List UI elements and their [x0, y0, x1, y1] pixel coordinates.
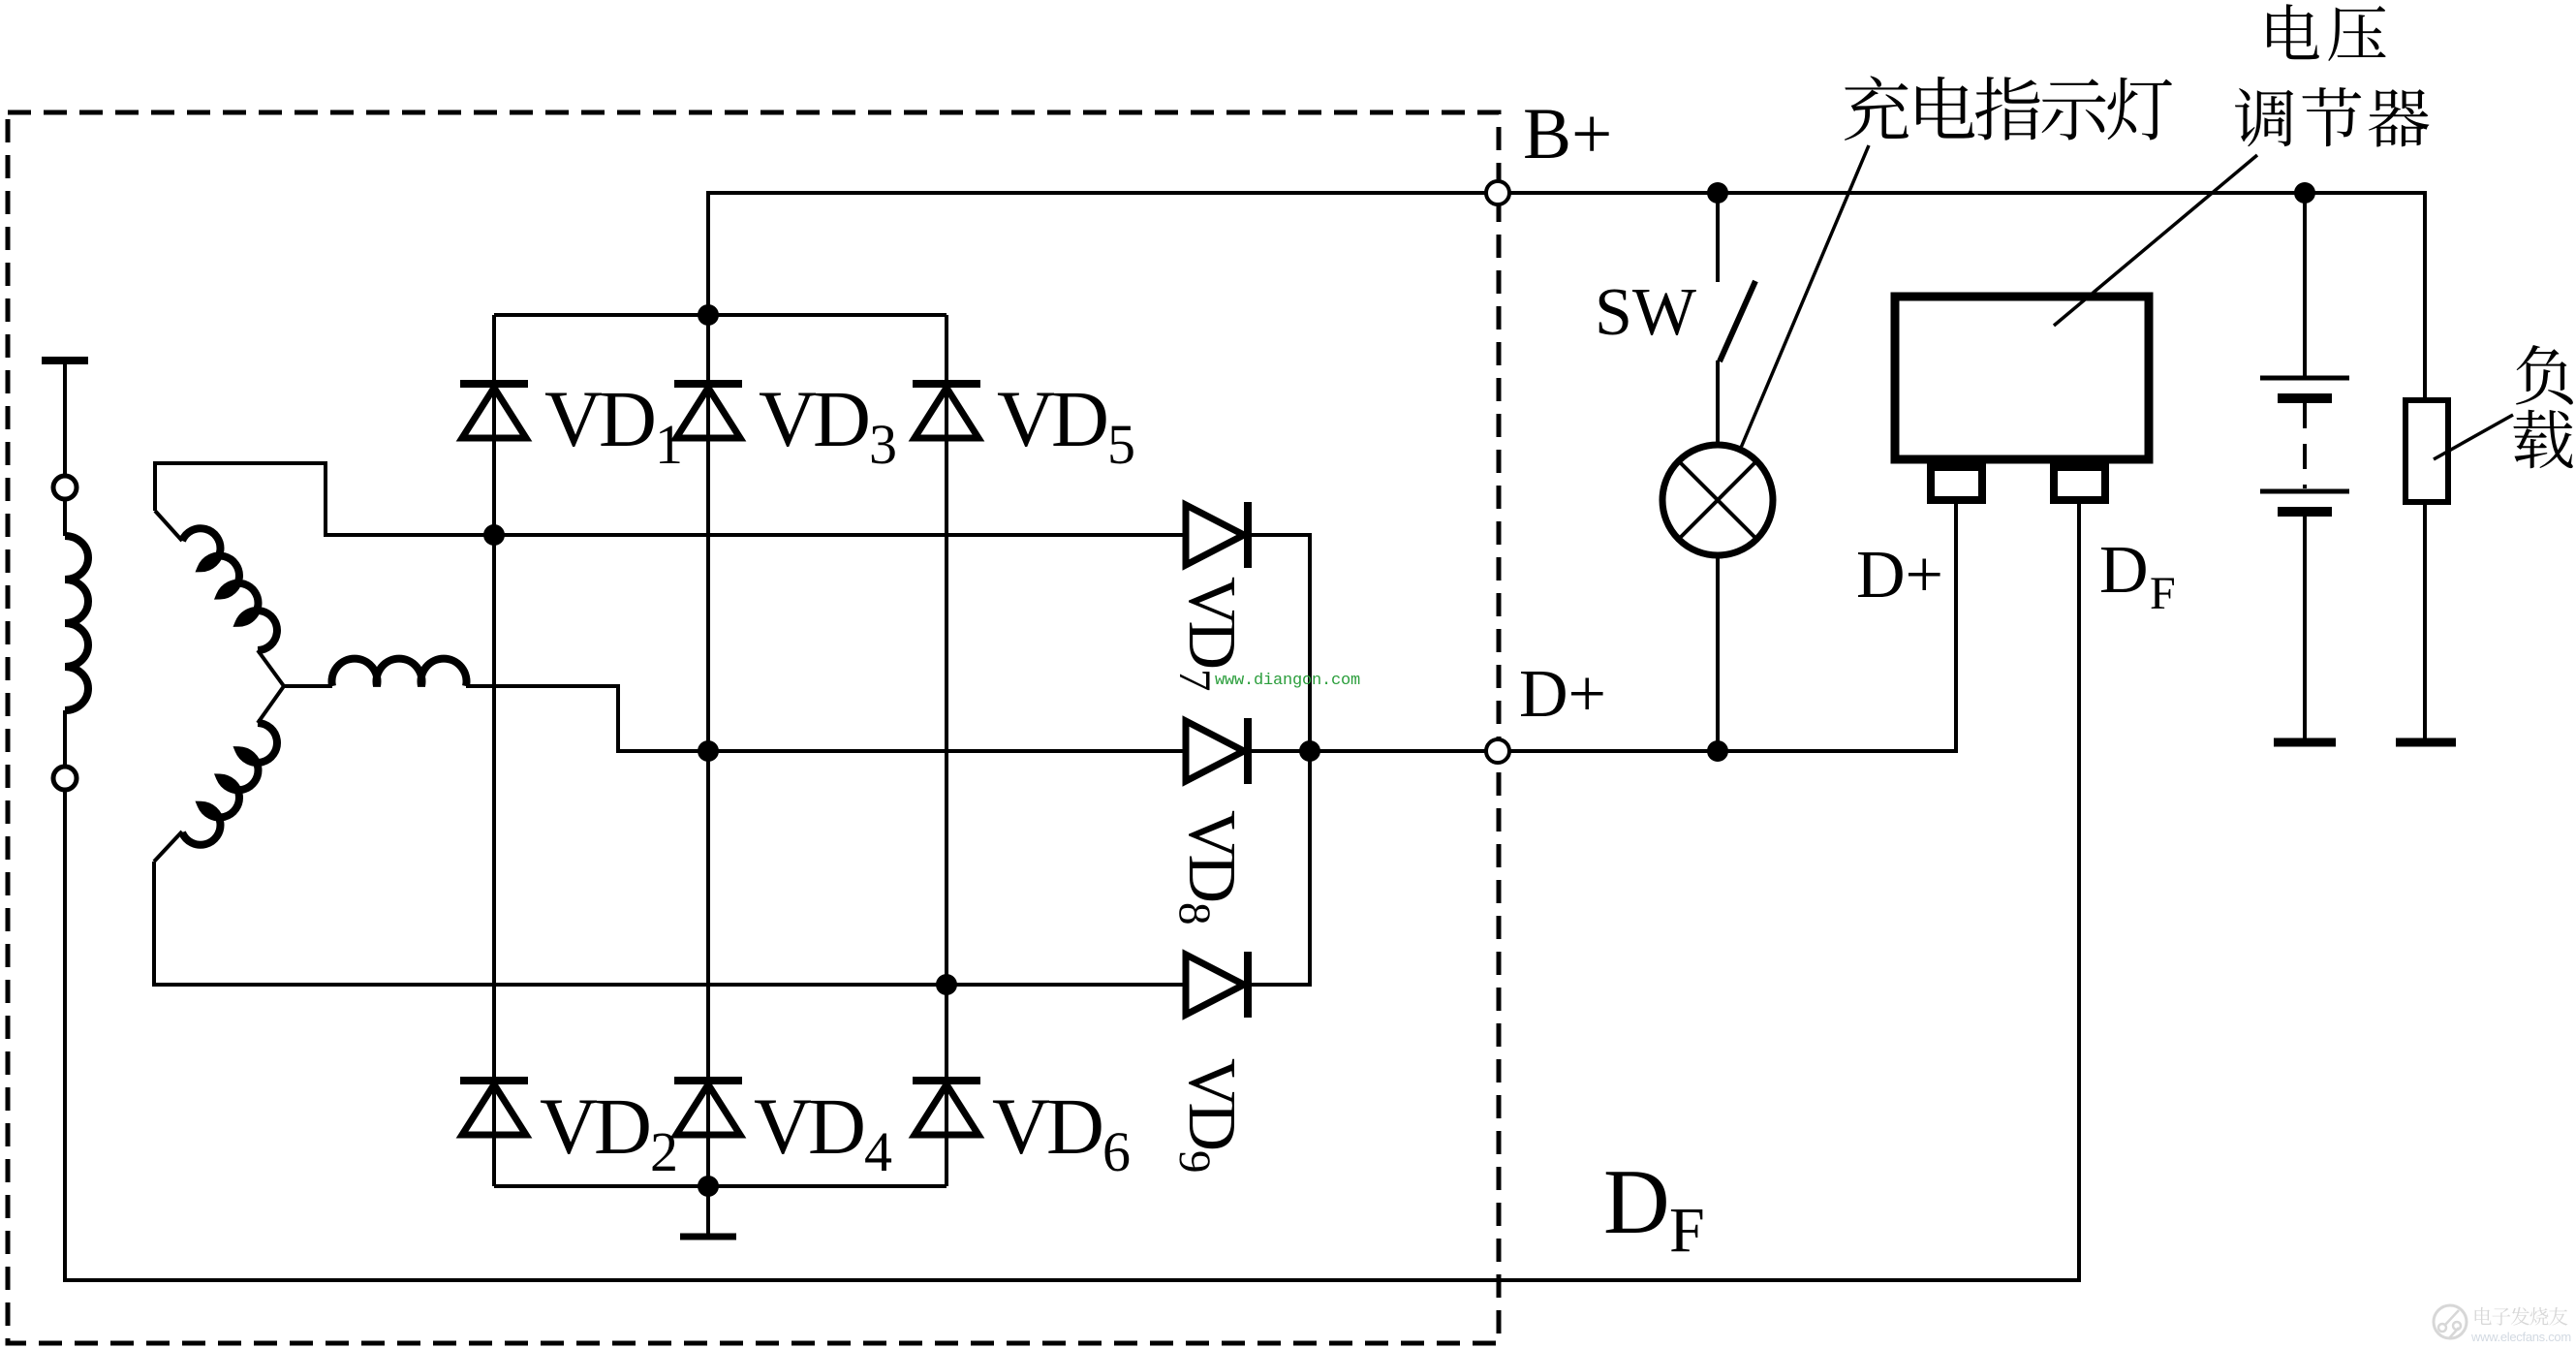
callout charging lamp: [1741, 145, 1869, 448]
diode VD9: [1186, 952, 1248, 1018]
diode VD2: [460, 1081, 528, 1135]
voltage regulator box: [1895, 297, 2149, 459]
junction aux bus / D+: [1299, 740, 1320, 762]
slip ring (upper): [53, 476, 77, 499]
wire VD9 cathode to bus: [1248, 983, 1312, 987]
wire VD8 cathode to bus: [1248, 749, 1310, 753]
wire phase C star to coil: [258, 686, 284, 723]
diode VD8: [1186, 718, 1248, 784]
label charging indicator lamp: [1845, 76, 2172, 141]
load resistor: [2405, 400, 2448, 502]
label VD1: [544, 374, 683, 476]
wire switch top: [1716, 193, 1720, 282]
junction phase A / VD1 column: [483, 524, 505, 546]
wire battery bottom: [2303, 517, 2307, 742]
diode VD7: [1186, 502, 1248, 568]
wire load bottom: [2423, 502, 2427, 742]
svg-text:B+: B+: [1523, 94, 1612, 174]
svg-text:D+: D+: [1519, 657, 1606, 732]
label D+ pin: [1856, 538, 1943, 612]
watermark elecfans: [2434, 1305, 2571, 1344]
label VD8: [1169, 810, 1249, 925]
wire B+ bus: [708, 191, 1499, 195]
wire phase C bevel: [154, 831, 182, 862]
svg-text:www.elecfans.com: www.elecfans.com: [2470, 1330, 2571, 1344]
svg-text:8: 8: [1169, 902, 1220, 925]
callout voltage regulator: [2054, 155, 2257, 326]
svg-text:D: D: [2099, 533, 2149, 608]
wire B+ riser: [708, 193, 2425, 400]
battery plate short 2: [2278, 507, 2332, 517]
label VD3: [759, 374, 897, 476]
svg-text:4: 4: [864, 1120, 892, 1183]
label VD4: [754, 1082, 892, 1183]
wire switch to lamp: [1716, 361, 1720, 446]
wire ground stub: [706, 1186, 710, 1235]
label load line1: [2516, 345, 2573, 405]
svg-text:VD: VD: [544, 374, 654, 463]
slip ring (lower): [53, 767, 77, 790]
callout load: [2434, 415, 2513, 459]
diode VD6: [913, 1081, 980, 1135]
label voltage regulator line1: [2267, 4, 2386, 61]
wire field coil to slip ring: [63, 710, 67, 767]
svg-text:VD: VD: [1174, 1058, 1249, 1149]
svg-text:SW: SW: [1595, 275, 1696, 350]
wire phase A line: [494, 533, 1186, 537]
stator winding phase C coil: [182, 723, 277, 845]
stator winding phase B coil: [331, 659, 466, 686]
svg-text:6: 6: [1102, 1120, 1131, 1183]
ground (load): [2396, 738, 2456, 747]
svg-text:1: 1: [655, 413, 683, 476]
svg-text:VD: VD: [1174, 810, 1249, 901]
svg-text:D+: D+: [1856, 538, 1943, 612]
wire VD7 cathode to bus: [1248, 533, 1312, 537]
battery plate long 2: [2260, 489, 2349, 494]
wire auxiliary bus: [1308, 535, 1312, 985]
terminal B+: [1486, 181, 1509, 204]
wire field top: [63, 361, 67, 476]
junction battery branch: [2294, 182, 2315, 204]
wire column VD1-VD2: [492, 315, 496, 1186]
wire phase C: [154, 862, 1186, 985]
svg-text:F: F: [1669, 1195, 1705, 1266]
svg-text:VD: VD: [992, 1082, 1102, 1171]
stator winding phase A coil: [182, 528, 277, 650]
wire lamp to D+ line: [1716, 555, 1720, 751]
label B+: [1523, 94, 1612, 174]
battery plate short 1: [2278, 393, 2332, 403]
label D+ terminal: [1519, 657, 1606, 732]
ground (rectifier): [680, 1234, 736, 1240]
label VD2: [540, 1082, 678, 1183]
wire top rail: [494, 313, 947, 317]
svg-text:VD: VD: [754, 1082, 863, 1171]
ground (battery): [2274, 738, 2336, 747]
label VD7: [1169, 577, 1249, 692]
junction bottom rail: [698, 1176, 719, 1197]
label VD9: [1169, 1058, 1249, 1174]
svg-text:VD: VD: [1174, 577, 1249, 668]
label load line2: [2513, 410, 2572, 468]
junction lamp / D+ line: [1707, 740, 1728, 762]
wire column VD3-VD4: [706, 315, 710, 1186]
diode VD3: [674, 384, 742, 438]
diode VD5: [913, 384, 980, 438]
wire column VD5-VD6: [945, 315, 948, 1186]
svg-text:www.diangon.com: www.diangon.com: [1215, 672, 1360, 690]
label VD6: [992, 1082, 1131, 1183]
svg-text:3: 3: [869, 413, 897, 476]
lamp charging indicator: [1662, 445, 1773, 555]
junction lamp branch: [1707, 182, 1728, 204]
diode VD4: [674, 1081, 742, 1135]
svg-text:F: F: [2150, 568, 2176, 619]
terminal D+: [1486, 739, 1509, 763]
wire phase A bevel: [155, 511, 182, 541]
wire DF return left: [65, 502, 2079, 1280]
wire battery top: [2303, 193, 2307, 378]
svg-text:VD: VD: [997, 374, 1106, 463]
svg-text:9: 9: [1169, 1150, 1220, 1174]
ground (field winding top): [42, 357, 88, 364]
label voltage regulator line2: [2235, 87, 2429, 146]
junction phase C / VD5 column: [936, 974, 957, 995]
wire bottom rail: [494, 1184, 947, 1188]
label SW: [1595, 275, 1696, 350]
label DF net: [1603, 1150, 1705, 1266]
svg-text:VD: VD: [759, 374, 868, 463]
alternator enclosure (dashed border): [8, 112, 1499, 1343]
wire slip ring to field coil: [63, 499, 67, 536]
svg-text:D: D: [1603, 1150, 1670, 1253]
label DF pin: [2099, 533, 2176, 619]
rotor field winding coil: [65, 536, 88, 710]
wire phase B: [466, 686, 1186, 751]
svg-text:2: 2: [650, 1120, 678, 1183]
junction phase B / VD3 column: [698, 740, 719, 762]
battery dashed middle: [2303, 403, 2307, 488]
diode VD1: [460, 384, 528, 438]
svg-text:5: 5: [1107, 413, 1135, 476]
node star point: [284, 684, 332, 688]
battery plate long 1: [2260, 376, 2349, 381]
switch SW blade: [1720, 281, 1755, 361]
regulator pin D+ tab: [1931, 467, 1982, 500]
wire phase A coil to star: [258, 650, 284, 686]
wire phase A terminal: [155, 463, 494, 535]
svg-text:7: 7: [1169, 669, 1220, 692]
wire D+ line: [1310, 502, 1956, 751]
watermark diangon: [1215, 672, 1360, 690]
regulator pin DF tab: [2054, 467, 2105, 500]
svg-text:VD: VD: [540, 1082, 649, 1171]
junction top rail: [698, 304, 719, 326]
label VD5: [997, 374, 1135, 476]
